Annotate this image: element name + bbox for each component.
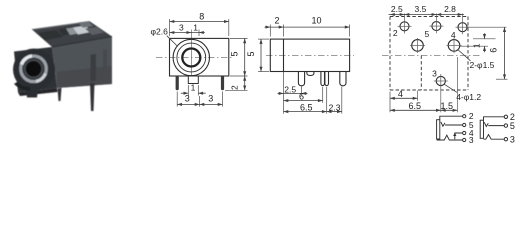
svg-text:8: 8 bbox=[199, 11, 204, 21]
svg-text:6.5: 6.5 bbox=[300, 102, 313, 112]
svg-text:2.3: 2.3 bbox=[329, 103, 341, 113]
svg-text:2.8: 2.8 bbox=[444, 4, 456, 14]
svg-text:1: 1 bbox=[191, 83, 196, 93]
svg-text:6.5: 6.5 bbox=[409, 101, 422, 111]
svg-text:3: 3 bbox=[510, 134, 515, 144]
svg-text:2.5: 2.5 bbox=[391, 4, 403, 14]
svg-text:3: 3 bbox=[469, 135, 474, 145]
svg-text:2-φ1.5: 2-φ1.5 bbox=[470, 60, 495, 70]
svg-text:4: 4 bbox=[451, 30, 456, 40]
svg-text:1.5: 1.5 bbox=[441, 101, 454, 111]
svg-text:10: 10 bbox=[311, 15, 321, 25]
svg-text:6: 6 bbox=[299, 92, 304, 102]
svg-text:2: 2 bbox=[393, 28, 398, 38]
svg-text:5: 5 bbox=[510, 121, 515, 131]
svg-text:5: 5 bbox=[246, 51, 256, 56]
svg-text:1: 1 bbox=[471, 43, 481, 48]
svg-text:2: 2 bbox=[274, 16, 279, 26]
svg-text:6: 6 bbox=[489, 48, 499, 53]
svg-text:4: 4 bbox=[398, 89, 403, 99]
svg-text:5: 5 bbox=[425, 29, 430, 39]
svg-text:5: 5 bbox=[230, 51, 240, 56]
svg-text:2: 2 bbox=[229, 85, 239, 90]
svg-text:3: 3 bbox=[432, 69, 437, 79]
svg-text:1: 1 bbox=[193, 23, 198, 33]
svg-text:3: 3 bbox=[208, 94, 213, 104]
svg-text:2.5: 2.5 bbox=[284, 84, 296, 94]
svg-text:4-φ1.2: 4-φ1.2 bbox=[456, 92, 481, 102]
svg-text:φ2.6: φ2.6 bbox=[151, 27, 169, 37]
svg-text:3: 3 bbox=[179, 23, 184, 33]
svg-text:3.5: 3.5 bbox=[414, 4, 426, 14]
svg-text:3: 3 bbox=[185, 94, 190, 104]
